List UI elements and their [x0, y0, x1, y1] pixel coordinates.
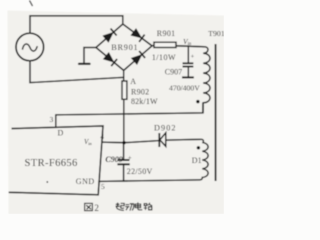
bridge diode bottom-left — [104, 53, 117, 66]
wire R901 to Vin node and transformer entry — [176, 46, 205, 47]
AC source G1 — [16, 33, 44, 61]
wire pin4 to junction — [102, 141, 124, 144]
junction Vin node dot — [122, 141, 125, 144]
wire drain: pin3 stub up — [55, 115, 57, 127]
wire bridge bottom vertex to R902 top (node A) — [123, 70, 125, 81]
bridge rectifier BR901 diamond — [96, 24, 152, 70]
svg-text:C907: C907 — [165, 68, 182, 77]
svg-text:2: 2 — [94, 203, 99, 213]
wire AC bottom to node A — [30, 61, 124, 83]
caption 电 glyph — [135, 202, 142, 210]
wire C909 bottom to GND wire — [123, 165, 125, 181]
capacitor C909 — [117, 160, 129, 164]
wire drain horizontal to transformer primary bottom — [56, 103, 203, 115]
stray dot inside IC — [46, 181, 48, 183]
bridge diode top-left — [103, 29, 116, 42]
transformer core — [215, 44, 217, 181]
svg-text:R901: R901 — [157, 29, 176, 38]
svg-text:82k/1W: 82k/1W — [131, 97, 158, 106]
capacitor C907 — [182, 63, 194, 77]
primary phase dot — [196, 100, 199, 103]
svg-text:D1: D1 — [192, 156, 202, 165]
svg-text:D: D — [58, 128, 64, 137]
wire D902 anode to D1 winding top — [166, 138, 201, 141]
IC U901 STR-F6656 box (open left) — [9, 126, 103, 195]
svg-text:4: 4 — [100, 132, 104, 141]
wire pin5 GND to D1 winding bottom — [99, 180, 200, 182]
ground bar under bridge left stub — [79, 63, 90, 65]
caption 图 glyph — [85, 203, 93, 210]
D1 winding — [200, 139, 208, 180]
wire C907 lower stub — [187, 67, 189, 76]
caption 动 glyph — [125, 204, 133, 211]
svg-text:3: 3 — [50, 115, 54, 124]
wire bridge right vertex to R901 — [152, 45, 154, 47]
resistor R902 body — [122, 81, 127, 99]
wire C907 stub top — [187, 46, 189, 62]
diode D902 (cathode bar left, hollow triangle) — [159, 133, 166, 147]
bridge diode top-right — [131, 29, 144, 42]
wire bridge left vertex stub down — [84, 48, 96, 63]
svg-text:A: A — [130, 77, 136, 86]
wire junction to D902 cathode — [124, 141, 159, 143]
svg-text:T901: T901 — [208, 29, 224, 38]
wire AC top to bridge top vertex — [30, 16, 123, 33]
svg-text:BR901: BR901 — [111, 43, 138, 52]
wire R902 bottom to Vin junction — [123, 99, 125, 143]
svg-text:470/400V: 470/400V — [169, 83, 200, 92]
svg-text:+: + — [128, 154, 132, 162]
wire junction down to C909 — [123, 143, 125, 160]
D1 phase dot — [197, 146, 200, 149]
svg-text:5: 5 — [101, 182, 105, 191]
svg-text:+: + — [191, 54, 195, 61]
svg-text:STR-F6656: STR-F6656 — [25, 158, 78, 169]
svg-text:GND: GND — [76, 177, 95, 186]
svg-text:D902: D902 — [154, 123, 177, 132]
bridge diode bottom-right — [132, 51, 145, 64]
svg-text:C909: C909 — [105, 155, 122, 164]
svg-text:1/10W: 1/10W — [152, 53, 176, 62]
transformer primary winding — [203, 47, 210, 113]
caption 路 glyph — [144, 203, 152, 210]
paper background — [8, 11, 225, 215]
stray tick mark top — [30, 1, 33, 7]
resistor R901 body — [154, 42, 176, 47]
svg-text:22/50V: 22/50V — [127, 167, 153, 176]
svg-text:R902: R902 — [131, 87, 149, 96]
caption 起 glyph — [116, 203, 125, 211]
